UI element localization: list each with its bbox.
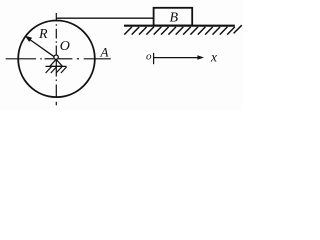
x-axis line with arrow <box>154 57 200 59</box>
ground line <box>124 25 235 27</box>
wheel circle O <box>18 21 95 98</box>
rope from wheel to block <box>56 17 154 19</box>
svg-text:o: o <box>146 51 152 63</box>
horizontal centerline <box>6 58 111 60</box>
radius arrow R <box>29 39 56 58</box>
x-axis origin tick <box>153 53 155 64</box>
block B <box>154 8 193 26</box>
svg-text:R: R <box>38 27 48 42</box>
svg-text:O: O <box>60 39 70 54</box>
vertical centerline <box>55 13 57 105</box>
svg-text:x: x <box>210 49 217 64</box>
pin at O <box>54 55 58 59</box>
support hatching <box>46 67 67 73</box>
svg-text:B: B <box>170 11 179 26</box>
support triangle <box>50 59 63 66</box>
support base <box>46 65 67 67</box>
svg-text:A: A <box>100 45 109 60</box>
ground hatching <box>124 25 242 34</box>
